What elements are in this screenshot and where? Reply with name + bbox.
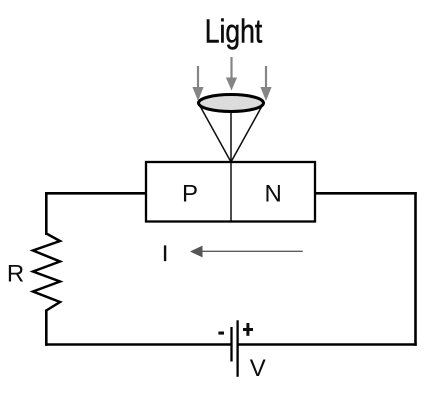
wire bottom right segment <box>239 343 417 346</box>
label minus <box>218 332 224 335</box>
cone right ray <box>231 106 262 162</box>
wire box-left to corner <box>45 192 146 195</box>
svg-text:N: N <box>265 181 282 208</box>
wire box-right to corner <box>315 192 417 195</box>
svg-text:Light: Light <box>205 12 263 49</box>
junction divider <box>230 162 232 222</box>
current arrow head <box>190 246 203 258</box>
wire right vertical <box>414 192 417 346</box>
label plus <box>243 323 253 336</box>
light arrow left <box>192 66 203 101</box>
lens L1 <box>199 95 264 112</box>
cone center ray <box>230 103 232 162</box>
current arrow shaft <box>196 250 303 252</box>
svg-text:P: P <box>182 181 198 208</box>
wire left vertical bottom <box>45 310 48 346</box>
light arrow right <box>260 66 271 101</box>
light arrow middle <box>226 57 237 91</box>
svg-text:I: I <box>162 241 168 266</box>
cone left ray <box>200 106 231 162</box>
battery V positive plate <box>236 320 238 377</box>
wire left vertical top <box>45 192 48 235</box>
svg-text:R: R <box>7 261 24 288</box>
svg-text:V: V <box>250 355 266 382</box>
photodiode body <box>146 162 315 222</box>
battery V negative plate <box>230 327 232 362</box>
wire bottom left segment <box>45 343 231 346</box>
resistor R <box>33 234 60 311</box>
